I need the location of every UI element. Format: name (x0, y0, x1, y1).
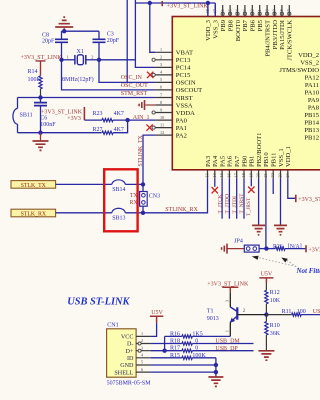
svg-text:PB4/JNTRST: PB4/JNTRST (264, 20, 271, 57)
svg-text:PB9: PB9 (220, 19, 227, 31)
svg-text:D+: D+ (126, 349, 134, 355)
wire VCC to U5V (151, 323, 157, 337)
MCU bottom pin names rotated (205, 133, 292, 167)
wire JP4 to node (259, 248, 266, 250)
svg-text:4K7: 4K7 (114, 111, 124, 117)
svg-text:T1: T1 (207, 308, 214, 314)
svg-text:PB12: PB12 (304, 135, 319, 142)
CN1 pin names (114, 335, 134, 377)
svg-text:VSS_3: VSS_3 (213, 19, 220, 38)
svg-text:T_JTCK: T_JTCK (217, 194, 223, 213)
MCU left pin names (176, 50, 202, 140)
wire T_JTCK (221, 178, 223, 219)
svg-text:9: 9 (160, 107, 162, 112)
svg-text:18: 18 (241, 173, 246, 177)
svg-text:R12: R12 (270, 290, 280, 296)
wire VBAT to rail (150, 3, 156, 52)
svg-text:STM_RST: STM_RST (121, 91, 148, 97)
svg-text:USB ST-LINK: USB ST-LINK (67, 297, 130, 308)
MCU right pin names (279, 52, 319, 142)
svg-text:+3V3: +3V3 (308, 247, 320, 253)
svg-text:12: 12 (160, 130, 164, 135)
svg-text:VSS_2: VSS_2 (300, 59, 319, 66)
svg-text:AIN_1: AIN_1 (133, 115, 150, 121)
svg-text:36K: 36K (270, 331, 281, 337)
ground symbol below C6 (40, 133, 42, 141)
svg-text:+3V3_ST_LINK: +3V3_ST_LINK (167, 4, 209, 10)
svg-text:STLINK_RX: STLINK_RX (165, 207, 198, 213)
svg-text:PA10: PA10 (305, 90, 320, 97)
IC U1 STM32 MCU body (172, 17, 320, 170)
wire STLK_RX to SB13 (56, 212, 112, 214)
node crystal pin1 (59, 58, 63, 62)
svg-text:PB0: PB0 (241, 155, 248, 167)
svg-text:+3V3_ST_LINK: +3V3_ST_LINK (21, 55, 63, 61)
svg-text:Not Fitted: Not Fitted (296, 267, 320, 275)
svg-text:CN1: CN1 (107, 322, 118, 328)
svg-text:R27: R27 (93, 127, 103, 133)
svg-text:PB6: PB6 (250, 19, 257, 31)
svg-text:PC14: PC14 (176, 65, 191, 72)
svg-text:10K: 10K (270, 298, 281, 304)
svg-text:6: 6 (141, 367, 143, 372)
svg-text:21: 21 (263, 173, 268, 177)
svg-text:100nF: 100nF (40, 122, 56, 128)
svg-text:17: 17 (234, 173, 239, 177)
svg-text:SB13: SB13 (112, 215, 125, 221)
svg-text:ID: ID (127, 356, 134, 362)
MCU unconnected pin circles left (152, 58, 155, 61)
MCU bottom pin numbers (205, 172, 290, 177)
svg-text:BOOT0: BOOT0 (235, 19, 242, 41)
solder bridge SB14 (112, 180, 126, 185)
MCU top pin names rotated (205, 19, 293, 60)
MCU left pin numbers 1-12 (160, 47, 164, 135)
wire ground to JP4 (227, 248, 244, 250)
svg-text:JTCK/SWCLK: JTCK/SWCLK (287, 20, 294, 61)
junction STLINK_TX CN3 (141, 182, 145, 186)
svg-text:PA3: PA3 (205, 155, 212, 167)
MCU bottom pin stubs (208, 170, 288, 178)
svg-text:PA7: PA7 (234, 155, 241, 167)
svg-text:PB11: PB11 (271, 153, 278, 167)
svg-text:VDD_2: VDD_2 (298, 52, 319, 59)
svg-text:PA11: PA11 (305, 82, 319, 89)
wire crystal pin2 to PC14 jog (99, 59, 135, 61)
svg-text:3: 3 (141, 345, 143, 350)
wire OSC_IN vertical from top (126, 0, 128, 82)
svg-text:PB14: PB14 (304, 120, 319, 127)
svg-text:C3: C3 (107, 31, 114, 37)
svg-text:VDD_3: VDD_3 (205, 19, 212, 41)
highlight rectangle around SB13 SB14 (104, 169, 137, 231)
svg-text:OSCOUT: OSCOUT (176, 87, 202, 94)
no-ERC X on pin PA4 (214, 178, 216, 187)
svg-text:STLK_TX: STLK_TX (21, 183, 47, 189)
CN1 pin circles D- D+ (138, 342, 141, 345)
svg-text:X1: X1 (77, 49, 84, 55)
wire T_NRST (243, 178, 245, 219)
svg-text:T_JRST: T_JRST (246, 197, 252, 216)
wire OSC_IN net (99, 60, 155, 83)
svg-text:PB13: PB13 (304, 127, 319, 134)
svg-text:VSS_1: VSS_1 (278, 148, 285, 167)
ground symbol PB2 (252, 225, 265, 234)
wire SB14 to junction (125, 183, 143, 185)
svg-text:1: 1 (141, 331, 143, 336)
svg-text:PB2/BOOT1: PB2/BOOT1 (256, 133, 263, 167)
capacitor C3 (98, 31, 100, 39)
svg-text:8: 8 (160, 100, 162, 105)
resistor R12 10K (265, 283, 267, 290)
svg-text:20pF: 20pF (42, 39, 55, 45)
svg-text:PA6: PA6 (227, 155, 234, 167)
svg-text:PA8: PA8 (308, 105, 320, 112)
svg-text:PB3/JTDO: PB3/JTDO (272, 20, 279, 50)
junction R14 reset rail (38, 95, 42, 99)
ground symbol below CN1 (208, 377, 223, 386)
svg-text:PA12: PA12 (305, 75, 319, 82)
svg-text:PC15: PC15 (176, 72, 191, 79)
junction D+ node (162, 349, 166, 353)
svg-text:PA9: PA9 (308, 97, 320, 104)
svg-text:STLINK_TX: STLINK_TX (138, 134, 144, 166)
junction VDD_3 rail (206, 1, 210, 5)
svg-text:T_JTDO: T_JTDO (225, 194, 231, 214)
power port +3V3_ST_LINK top rail (135, 2, 215, 4)
svg-text:U5V: U5V (261, 272, 273, 278)
power port +3V3 right of R26 (305, 245, 307, 252)
port STLK_TX (11, 181, 56, 189)
svg-text:C8: C8 (42, 33, 49, 39)
svg-text:USB_DM: USB_DM (215, 339, 240, 345)
wire T_JTDI (236, 178, 238, 219)
junction T1 base node (264, 312, 268, 316)
svg-text:PA2: PA2 (176, 132, 187, 139)
svg-text:D-: D- (127, 342, 133, 348)
wire PB10 to JP4 node (265, 178, 267, 248)
svg-text:5: 5 (141, 360, 143, 365)
wire STLINK_RX to PA3 (143, 178, 208, 213)
wire STLK_TX to SB14 (56, 183, 112, 185)
ground symbol at VSSA pin (146, 104, 156, 106)
svg-text:VCC: VCC (121, 335, 134, 341)
CN1 pin stubs (136, 336, 151, 372)
svg-text:1: 1 (67, 54, 69, 59)
svg-text:19: 19 (248, 173, 253, 177)
svg-text:PB5: PB5 (257, 19, 264, 31)
svg-text:SHELL: SHELL (114, 370, 133, 376)
ground symbol below R10 (258, 351, 274, 360)
svg-text:7: 7 (160, 92, 162, 97)
svg-text:2: 2 (91, 54, 93, 59)
svg-text:VDD_1: VDD_1 (285, 146, 292, 167)
svg-text:OSCIN: OSCIN (176, 80, 196, 87)
svg-text:PA15/JTDI: PA15/JTDI (279, 20, 286, 50)
svg-text:+3V3: +3V3 (67, 116, 81, 122)
svg-text:USB_DP: USB_DP (215, 346, 238, 352)
svg-text:VBAT: VBAT (176, 50, 193, 57)
svg-text:PB1: PB1 (249, 156, 256, 167)
svg-text:1: 1 (160, 47, 162, 52)
node crystal pin2 (97, 58, 101, 62)
junction ground-rail (62, 29, 66, 33)
svg-text:SB11: SB11 (20, 112, 33, 118)
resistor R10 36K (265, 315, 267, 322)
svg-text:16: 16 (226, 173, 231, 177)
svg-text:8MHz(12pF): 8MHz(12pF) (62, 76, 94, 83)
svg-text:OSC_OUT: OSC_OUT (121, 83, 148, 89)
not fitted callout (256, 257, 299, 269)
junction VBAT rail (148, 1, 152, 5)
svg-text:[N/A]: [N/A] (288, 244, 302, 250)
svg-text:9013: 9013 (207, 316, 219, 322)
port STLK_RX (11, 209, 56, 217)
svg-text:T_NRST: T_NRST (239, 193, 245, 214)
svg-text:VDDA: VDDA (176, 110, 195, 117)
wire ID GND SHELL to ground (215, 358, 217, 377)
wire OSC_OUT net (62, 60, 156, 90)
wire T_JTDO (228, 178, 230, 219)
MCU top pin circles (221, 12, 291, 15)
svg-text:5: 5 (160, 77, 162, 82)
svg-text:2: 2 (160, 55, 162, 60)
junction SHELL (214, 370, 218, 374)
wire stub PB11 (272, 178, 274, 194)
svg-text:+3V3_ST_LINK: +3V3_ST_LINK (298, 197, 320, 203)
svg-text:PB8: PB8 (227, 19, 234, 31)
svg-text:PB15: PB15 (304, 112, 319, 119)
no-ERC X on pin PC15 (147, 72, 153, 78)
svg-text:10: 10 (160, 115, 164, 120)
svg-text:20: 20 (256, 173, 261, 177)
wire PB2 to ground (258, 178, 260, 225)
svg-text:5075BMR-05-SM: 5075BMR-05-SM (107, 380, 152, 386)
svg-text:JTMS/SWDIO: JTMS/SWDIO (279, 67, 319, 74)
capacitor C6 100nF (40, 98, 42, 103)
MCU top pin numbers (205, 8, 291, 13)
svg-text:23: 23 (278, 173, 283, 177)
svg-text:6: 6 (160, 85, 162, 90)
wire STLINK_TX from PA2 (143, 135, 155, 184)
connector CN3 (142, 184, 144, 191)
svg-text:22: 22 (270, 173, 275, 177)
svg-text:CN3: CN3 (149, 193, 160, 199)
svg-text:15: 15 (219, 173, 224, 177)
svg-text:PB10: PB10 (263, 152, 270, 167)
MCU top pin stubs (208, 5, 289, 17)
svg-text:JP4: JP4 (234, 239, 243, 245)
no-ERC X on pin PA1 (146, 124, 152, 130)
svg-text:R14: R14 (28, 69, 38, 75)
svg-text:R23: R23 (93, 111, 103, 117)
svg-text:20pF: 20pF (107, 38, 120, 44)
junction JP4 node (264, 246, 268, 250)
svg-text:PA0: PA0 (176, 117, 188, 124)
svg-text:13: 13 (205, 173, 210, 177)
svg-text:GND: GND (120, 363, 134, 369)
svg-text:VSSA: VSSA (176, 102, 193, 109)
wire VDD_1 to +3V3_ST_LINK port (288, 178, 296, 198)
svg-text:OSC_IN: OSC_IN (121, 75, 143, 81)
wire ground rail under C6 (18, 132, 102, 134)
wire D+ to R16 (164, 336, 166, 350)
svg-text:2: 2 (141, 338, 143, 343)
svg-text:U5V: U5V (151, 310, 163, 316)
svg-text:PC13: PC13 (176, 57, 191, 64)
svg-text:PA1: PA1 (176, 125, 187, 132)
junction C6 ground rail (38, 131, 42, 135)
svg-text:STLK_RX: STLK_RX (21, 212, 47, 218)
svg-text:PB7: PB7 (242, 19, 249, 31)
MCU left pin stubs (155, 52, 172, 135)
svg-text:11: 11 (160, 122, 164, 127)
wire top cap rail (62, 30, 100, 32)
wire T_JRST with X (250, 178, 252, 186)
svg-text:PA4: PA4 (212, 155, 219, 167)
svg-text:R10: R10 (270, 323, 280, 329)
svg-text:C6: C6 (40, 115, 47, 121)
solder bridge SB11 (17, 98, 19, 109)
wire VSS_1 to ground (280, 178, 282, 225)
power port +3V3_ST_LINK right (295, 195, 297, 203)
svg-text:SB14: SB14 (112, 187, 125, 193)
ground symbol VSS_1 (274, 225, 287, 234)
junction GND (214, 363, 218, 367)
svg-text:1: 1 (224, 330, 229, 332)
solder bridge SB13 (112, 208, 126, 213)
svg-text:3: 3 (160, 62, 162, 67)
svg-text:T_JTDI: T_JTDI (232, 196, 238, 214)
junction STLINK_RX (141, 211, 145, 215)
svg-text:NRST: NRST (176, 95, 193, 102)
capacitor C8 (61, 31, 63, 39)
ground symbol above crystal (55, 17, 73, 27)
junction AIN_1 (125, 118, 129, 122)
ground symbol left of JP4 (222, 244, 227, 254)
power port +3V3 for R23 (83, 107, 85, 120)
svg-text:PA5: PA5 (219, 155, 226, 167)
wire VDD_3 VSS_3 up to rail (207, 3, 209, 17)
wire STM_RST rail (18, 97, 156, 99)
